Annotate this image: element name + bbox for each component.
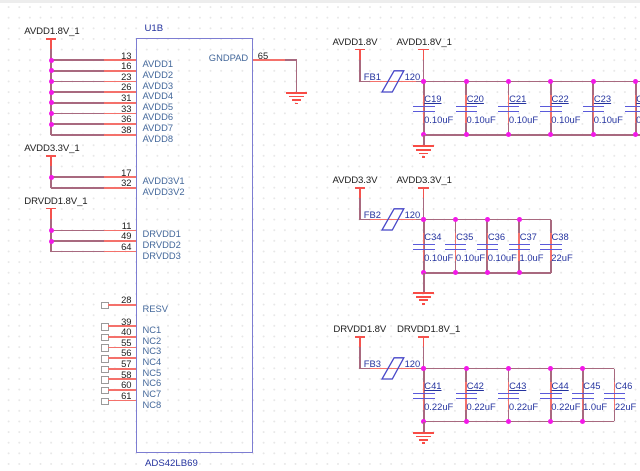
capacitor C44 body <box>550 382 552 410</box>
net label AVDD1.8V_1 <box>24 27 79 37</box>
capacitor C42 reference label <box>467 381 484 390</box>
capacitor C19 reference label <box>424 94 441 103</box>
junction node AVDD5 <box>49 100 54 105</box>
pin 61 lead <box>108 400 136 402</box>
pin 36 lead <box>104 123 136 125</box>
reference designator U1B <box>145 24 164 34</box>
pin name AVDD5 <box>143 102 174 111</box>
junction <box>633 132 638 137</box>
junction <box>517 270 522 275</box>
pin number 11 <box>122 221 132 230</box>
pin name NC2 <box>143 336 162 345</box>
pin name AVDD3 <box>143 81 174 90</box>
wire AVDD3.3V to AVDD3.3V_1 <box>360 219 424 221</box>
capacitor C45 reference label <box>583 381 600 390</box>
wire to pin 11 <box>51 230 104 232</box>
power port AVDD1.8V_1 <box>418 49 429 51</box>
pin name AVDD8 <box>143 134 174 143</box>
capacitor C37 body <box>518 233 520 261</box>
junction <box>548 79 553 84</box>
wire to pin 38 <box>51 134 104 136</box>
wire bottom rail gnd AVDD3.3V_1 <box>424 272 551 274</box>
pin number 38 <box>121 125 131 134</box>
no-connect square pin 28 <box>101 302 109 310</box>
pin number 61 <box>121 391 131 400</box>
wire column C20 <box>465 82 467 135</box>
ground DRVDD1.8V_1 <box>413 432 435 434</box>
wire to pin 23 <box>51 81 104 83</box>
wire to pin 16 <box>51 70 104 72</box>
capacitor C43 reference label <box>509 381 526 390</box>
capacitor C22 body <box>550 95 552 123</box>
ferrite bead FB2 value 120 <box>405 210 421 219</box>
pin number 13 <box>121 51 131 60</box>
wire to pin 26 <box>51 91 104 93</box>
no-connect square pin 40 <box>101 334 109 342</box>
junction node AVDD4 <box>49 90 54 95</box>
wire top rail DRVDD1.8V_1 <box>424 368 615 370</box>
wire bottom rail gnd DRVDD1.8V_1 <box>424 421 615 423</box>
junction <box>548 419 553 424</box>
pin 64 lead <box>104 251 136 253</box>
pin number 33 <box>121 104 131 113</box>
pin 23 lead <box>104 81 136 83</box>
ferrite bead FB2 body <box>380 208 406 232</box>
capacitor C44 reference label <box>552 381 569 390</box>
wire column C34 <box>423 220 425 273</box>
pin name NC3 <box>143 346 162 355</box>
pin number 39 <box>121 317 131 326</box>
capacitor C45 value 1.0uF <box>583 402 607 411</box>
wire to pin 17 <box>51 176 104 178</box>
junction <box>548 366 553 371</box>
junction <box>506 366 511 371</box>
wire pin65 to ground <box>285 59 297 61</box>
no-connect square pin 39 <box>101 323 109 331</box>
junction <box>591 132 596 137</box>
capacitor C37 value 1.0uF <box>520 253 544 262</box>
power port AVDD1.8V <box>355 49 366 51</box>
capacitor C38 reference label <box>552 232 569 241</box>
power port AVDD1.8V_1 <box>46 38 57 40</box>
junction node AVDD2 <box>49 68 54 73</box>
power port DRVDD1.8V <box>355 336 366 338</box>
pin 17 lead <box>104 176 136 178</box>
net label AVDD3.3V_1 <box>397 176 452 186</box>
pin 56 lead <box>108 357 136 359</box>
pin 11 lead <box>104 230 136 232</box>
pin number 60 <box>121 380 131 389</box>
junction node AVDD1.8V_1 <box>421 79 426 84</box>
junction <box>464 132 469 137</box>
junction <box>506 79 511 84</box>
pin name DRVDD1 <box>143 229 181 238</box>
capacitor C24 value 0.10uF <box>636 115 640 124</box>
capacitor C42 body <box>465 382 467 410</box>
capacitor C46 value 22uF <box>615 402 636 411</box>
no-connect square pin 56 <box>101 355 109 363</box>
pin name DRVDD3 <box>143 251 181 260</box>
capacitor C43 value 0.22uF <box>509 402 538 411</box>
wire column C35 <box>455 220 457 273</box>
net label AVDD3.3V <box>333 176 378 186</box>
wire column C23 <box>592 82 594 135</box>
no-connect square pin 58 <box>101 376 109 384</box>
pin 31 lead <box>104 102 136 104</box>
capacitor C38 body <box>550 233 552 261</box>
ferrite bead FB1 reference FB1 <box>364 72 381 81</box>
wire bus AVDD3.3V_1 <box>50 177 52 188</box>
pin 65 lead <box>253 59 285 61</box>
pin name RESV <box>143 304 169 313</box>
pin name NC1 <box>143 325 162 334</box>
capacitor C20 reference label <box>467 94 484 103</box>
pin name AVDD6 <box>143 112 174 121</box>
capacitor C21 reference label <box>509 94 526 103</box>
capacitor C21 body <box>508 95 510 123</box>
wire column C21 <box>508 82 510 135</box>
power port DRVDD1.8V_1 <box>418 336 429 338</box>
pin name AVDD1 <box>143 59 174 68</box>
pin 55 lead <box>108 347 136 349</box>
wire to pin 33 <box>51 113 104 115</box>
capacitor C21 value 0.10uF <box>509 115 538 124</box>
capacitor C46 body <box>614 382 616 410</box>
wire column C41 <box>423 369 425 422</box>
pin number 31 <box>121 93 131 102</box>
wire column C37 <box>518 220 520 273</box>
capacitor C46 reference label <box>615 381 632 390</box>
ground AVDD3.3V_1 <box>413 292 435 294</box>
pin name NC5 <box>143 368 162 377</box>
pin 16 lead <box>104 70 136 72</box>
no-connect square pin 60 <box>101 387 109 395</box>
no-connect square pin 61 <box>101 398 109 406</box>
junction node AVDD6 <box>49 111 54 116</box>
pin 60 lead <box>108 389 136 391</box>
pin number 57 <box>121 359 131 368</box>
junction <box>580 366 585 371</box>
power port DRVDD1.8V_1 <box>46 208 57 210</box>
junction <box>485 270 490 275</box>
capacitor C44 value 0.22uF <box>551 402 580 411</box>
junction <box>506 419 511 424</box>
ferrite bead FB3 body <box>380 357 406 381</box>
wire column C36 <box>486 220 488 273</box>
capacitor C43 body <box>508 382 510 410</box>
pin number 32 <box>121 178 131 187</box>
wire column C45 <box>582 369 584 422</box>
pin 49 lead <box>104 240 136 242</box>
pin number 17 <box>121 168 131 177</box>
ground AVDD1.8V_1 <box>413 145 435 147</box>
ferrite bead FB3 value 120 <box>405 359 421 368</box>
pin name DRVDD2 <box>143 240 181 249</box>
pin name NC7 <box>143 389 162 398</box>
junction <box>506 132 511 137</box>
wire right edge <box>550 220 552 273</box>
ferrite bead FB2 reference FB2 <box>364 210 381 219</box>
pin 32 lead <box>104 187 136 189</box>
wire to pin 49 <box>51 240 104 242</box>
capacitor C23 value 0.10uF <box>594 115 623 124</box>
capacitor C24 reference label <box>636 94 640 103</box>
pin 33 lead <box>104 113 136 115</box>
pin name AVDD7 <box>143 123 174 132</box>
capacitor C38 value 22uF <box>551 253 572 262</box>
net label DRVDD1.8V <box>333 325 386 335</box>
capacitor C35 reference label <box>456 232 473 241</box>
capacitor C36 reference label <box>488 232 505 241</box>
capacitor C34 value 0.10uF <box>424 253 453 262</box>
junction <box>421 217 426 222</box>
pin number 40 <box>121 327 131 336</box>
wire to pin 36 <box>51 123 104 125</box>
top window edge band <box>0 0 640 3</box>
wire column C19 <box>423 82 425 135</box>
pin 39 lead <box>108 325 136 327</box>
pin 40 lead <box>108 336 136 338</box>
pin number 49 <box>121 231 131 240</box>
junction node AVDD7 <box>49 122 54 127</box>
pin 26 lead <box>104 91 136 93</box>
pin number 28 <box>121 295 131 304</box>
pin number 23 <box>121 72 131 81</box>
pin number 64 <box>121 242 131 251</box>
wire column C43 <box>508 369 510 422</box>
junction node DRVDD1.8V_1 <box>421 366 426 371</box>
power port AVDD3.3V <box>355 187 366 189</box>
capacitor C36 body <box>487 233 489 261</box>
junction <box>421 366 426 371</box>
ferrite bead FB1 value 120 <box>405 72 421 81</box>
capacitor C35 value 0.10uF <box>456 253 485 262</box>
pin name AVDD3V1 <box>143 176 185 185</box>
wire to pin 64 <box>51 251 104 253</box>
no-connect square pin 55 <box>101 344 109 352</box>
junction node DRVDD1 <box>49 228 54 233</box>
junction <box>421 79 426 84</box>
capacitor C37 reference label <box>520 232 537 241</box>
pin 28 lead <box>108 304 136 306</box>
junction <box>464 366 469 371</box>
wire right edge <box>614 369 616 422</box>
wire to pin 13 <box>51 59 104 61</box>
wire to pin 32 <box>51 187 104 189</box>
wire down to ground <box>296 60 298 92</box>
junction <box>421 419 426 424</box>
wire DRVDD1.8V to DRVDD1.8V_1 <box>360 368 424 370</box>
pin name NC8 <box>143 400 162 409</box>
pin name GNDPAD <box>209 53 248 62</box>
ferrite bead FB2 pin leads <box>370 219 416 221</box>
wire to ground <box>423 422 425 432</box>
ferrite bead FB3 reference FB3 <box>364 359 381 368</box>
pin number 36 <box>121 114 131 123</box>
junction <box>633 79 638 84</box>
capacitor C41 reference label <box>424 381 441 390</box>
junction node AVDD3.3V_1 <box>421 217 426 222</box>
capacitor C23 body <box>593 95 595 123</box>
ground GNDPAD <box>286 92 308 94</box>
wire bus AVDD1.8V_1 <box>50 60 52 135</box>
junction <box>591 79 596 84</box>
wire bus DRVDD1.8V_1 <box>50 230 52 251</box>
wire column C24 <box>635 82 637 135</box>
capacitor C23 reference label <box>594 94 611 103</box>
pin name AVDD4 <box>143 91 174 100</box>
net label AVDD1.8V <box>333 38 378 48</box>
pin 38 lead <box>104 134 136 136</box>
power port AVDD3.3V_1 <box>46 155 57 157</box>
junction <box>453 270 458 275</box>
wire to pin 31 <box>51 102 104 104</box>
pin 58 lead <box>108 378 136 380</box>
capacitor C34 reference label <box>424 232 441 241</box>
pin number 16 <box>121 61 131 70</box>
capacitor C24 body <box>635 95 637 123</box>
wire column C44 <box>550 369 552 422</box>
pin 13 lead <box>104 59 136 61</box>
capacitor C45 body <box>582 382 584 410</box>
junction <box>421 132 426 137</box>
capacitor C22 value 0.10uF <box>551 115 580 124</box>
part value ADS42LB69 <box>145 459 198 469</box>
pin number 65 <box>258 51 268 60</box>
pin number 26 <box>121 82 131 91</box>
wire top rail AVDD3.3V_1 <box>424 219 551 221</box>
pin number 55 <box>121 338 131 347</box>
capacitor C41 body <box>423 382 425 410</box>
capacitor C34 body <box>423 233 425 261</box>
junction <box>453 217 458 222</box>
capacitor C19 body <box>423 95 425 123</box>
pin 57 lead <box>108 368 136 370</box>
junction node AVDD3V1 <box>49 175 54 180</box>
capacitor C42 value 0.22uF <box>467 402 496 411</box>
ferrite bead FB3 pin leads <box>370 368 416 370</box>
wire to ground <box>423 135 425 146</box>
wire column C42 <box>465 369 467 422</box>
power port AVDD3.3V_1 <box>418 187 429 189</box>
wire to ground <box>423 273 425 292</box>
wire AVDD1.8V to AVDD1.8V_1 <box>360 81 424 83</box>
pin name NC4 <box>143 357 162 366</box>
capacitor C35 body <box>455 233 457 261</box>
net label AVDD1.8V_1 <box>397 38 452 48</box>
ferrite bead FB1 body <box>380 70 406 94</box>
junction <box>517 217 522 222</box>
junction node AVDD1 <box>49 58 54 63</box>
no-connect square pin 57 <box>101 366 109 374</box>
junction <box>548 132 553 137</box>
capacitor C20 body <box>465 95 467 123</box>
wire top rail AVDD1.8V_1 <box>424 81 640 83</box>
pin name NC6 <box>143 378 162 387</box>
junction <box>485 217 490 222</box>
capacitor C20 value 0.10uF <box>467 115 496 124</box>
junction <box>464 419 469 424</box>
junction node AVDD3 <box>49 79 54 84</box>
junction <box>421 270 426 275</box>
capacitor C36 value 0.10uF <box>488 253 517 262</box>
capacitor C22 reference label <box>552 94 569 103</box>
pin name AVDD2 <box>143 70 174 79</box>
junction <box>580 419 585 424</box>
op-amp U1 IC body ADS42LB69 <box>136 38 254 453</box>
capacitor C19 value 0.10uF <box>424 115 453 124</box>
junction node DRVDD2 <box>49 239 54 244</box>
junction <box>464 79 469 84</box>
net label AVDD3.3V_1 <box>24 144 79 154</box>
pin number 58 <box>121 370 131 379</box>
wire column C22 <box>550 82 552 135</box>
net label DRVDD1.8V_1 <box>397 325 460 335</box>
ferrite bead FB1 pin leads <box>370 81 416 83</box>
wire bottom rail gnd AVDD1.8V_1 <box>424 134 640 136</box>
pin number 56 <box>121 348 131 357</box>
net label DRVDD1.8V_1 <box>24 197 87 207</box>
capacitor C41 value 0.22uF <box>424 402 453 411</box>
pin name AVDD3V2 <box>143 187 185 196</box>
